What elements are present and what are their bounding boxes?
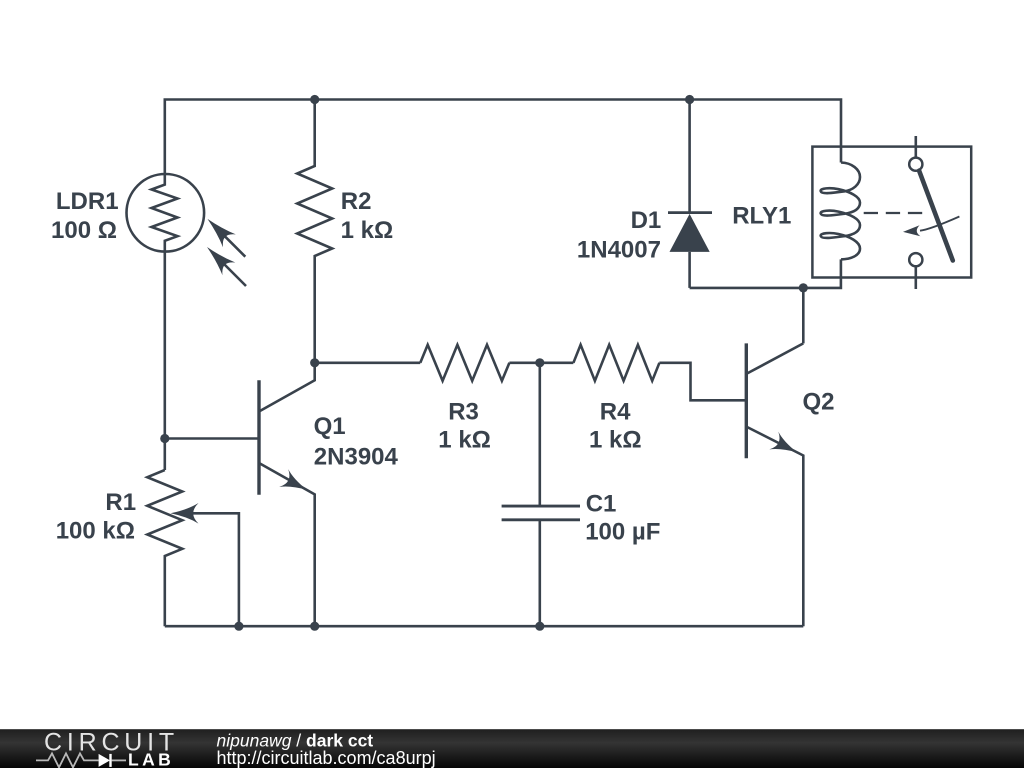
footer bar [0, 729, 1024, 768]
svg-text:R4: R4 [600, 398, 631, 425]
diode D1 triangle [670, 214, 710, 252]
wire R3 to R4 [509, 361, 573, 364]
junction node rail Q1 emitter [310, 622, 319, 631]
wire R1 wiper shaft [190, 513, 239, 626]
capacitor C1 top lead [538, 363, 541, 506]
diode D1 cathode bar [668, 211, 712, 214]
Q1 base bar [257, 380, 260, 494]
capacitor C1 plates [502, 506, 580, 520]
diode D1 bottom lead [688, 252, 691, 288]
svg-text:1N4007: 1N4007 [577, 237, 661, 264]
LDR1 zigzag [152, 174, 178, 252]
Q2 collector [746, 343, 803, 374]
svg-text:100 kΩ: 100 kΩ [56, 518, 135, 545]
svg-text:http://circuitlab.com/ca8urpj: http://circuitlab.com/ca8urpj [217, 748, 436, 768]
junction node top D1 [685, 95, 694, 104]
junction node relay bottom (D1/coil/Q2 collector) [799, 283, 808, 292]
diode D1 top lead [688, 100, 691, 213]
wire R4 to Q2 base [659, 363, 746, 401]
Q2 emitter [746, 427, 803, 627]
junction node C (R3/R4/C1) [535, 358, 544, 367]
CircuitLab logo resistor-diode glyph [36, 753, 99, 767]
LDR1 light arrow 1 head [208, 219, 236, 247]
svg-text:Q1: Q1 [314, 413, 346, 440]
svg-text:RLY1: RLY1 [732, 203, 791, 230]
svg-text:R2: R2 [341, 188, 372, 215]
resistor R4 zigzag [573, 345, 659, 381]
resistor R2 leads and zigzag [297, 100, 332, 363]
relay switch bottom contact circle [909, 253, 922, 266]
wire bottom rail [165, 625, 804, 628]
R1 wiper arrowhead [171, 503, 199, 524]
svg-text:100 Ω: 100 Ω [51, 217, 117, 244]
svg-text:1 kΩ: 1 kΩ [341, 217, 394, 244]
svg-text:Q2: Q2 [803, 389, 835, 416]
resistor R1 (potentiometer body) [147, 470, 182, 626]
wire LDR bottom to node A [164, 252, 167, 471]
junction node B (R2/R3/Q1 collector) [310, 358, 319, 367]
transistor Q2 [746, 343, 803, 626]
Q1 collector [259, 363, 315, 412]
svg-text:LDR1: LDR1 [56, 188, 119, 215]
Q1 emitter [259, 463, 315, 626]
wire Q1 base from node A [165, 437, 259, 440]
svg-text:LAB: LAB [128, 750, 174, 768]
svg-text:2N3904: 2N3904 [314, 443, 399, 470]
capacitor C1 bottom lead [538, 520, 541, 626]
wire relay bottom: diode to coil [690, 259, 841, 288]
Q2 base bar [745, 343, 748, 458]
junction node top R2 [310, 95, 319, 104]
LDR1 light arrow 1 shaft [223, 234, 245, 256]
junction node A (LDR/R1/Q1 base) [160, 434, 169, 443]
relay actuation dashed line [864, 212, 923, 214]
relay actuation arrowhead [903, 225, 920, 236]
transistor Q1 [259, 363, 315, 626]
Q1 emitter arrowhead [279, 469, 307, 490]
Q2 emitter arrowhead [769, 432, 797, 453]
svg-text:1 kΩ: 1 kΩ [438, 427, 491, 454]
svg-text:R3: R3 [448, 398, 479, 425]
photoresistor LDR1 circle [127, 174, 205, 252]
wire Q2 collector riser [802, 288, 805, 344]
LDR1 light arrow 2 head [207, 247, 235, 275]
relay coil [821, 163, 860, 260]
relay switch blade [919, 171, 953, 261]
relay actuation arrow arc [920, 217, 959, 231]
junction node rail R1 wiper [234, 622, 243, 631]
svg-text:D1: D1 [631, 207, 662, 234]
relay switch top contact circle [909, 158, 922, 171]
relay switch top terminal [914, 136, 917, 158]
wire node B to R3 [315, 361, 421, 364]
wire top rail: LDR top, +V rail to relay coil [165, 100, 841, 175]
LDR1 light arrow 2 shaft [223, 263, 247, 287]
svg-text:C1: C1 [586, 491, 617, 518]
svg-text:R1: R1 [105, 489, 136, 516]
resistor R3 zigzag [420, 345, 509, 381]
svg-text:100 µF: 100 µF [585, 519, 660, 546]
svg-text:1 kΩ: 1 kΩ [589, 427, 642, 454]
junction node rail C1 [535, 622, 544, 631]
relay RLY1 box [812, 147, 971, 278]
relay switch bottom terminal [914, 266, 917, 289]
